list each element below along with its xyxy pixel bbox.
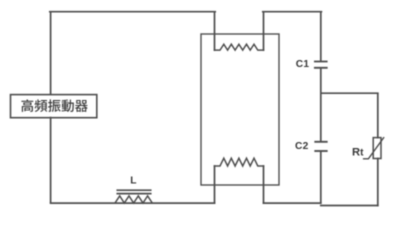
wire: left vertical from top rail down to oscillator box: [50, 12, 52, 94]
resistor: top heater element zigzag (inside transducer): [215, 44, 264, 50]
thermistor Rt diagonal stroke with bent foot: [364, 138, 384, 159]
capacitor C1 bottom plate: [315, 67, 327, 69]
inductor L core bar lower: [117, 193, 150, 195]
oscillator box label char 器: [75, 100, 88, 112]
wire: top rail left segment: [50, 11, 215, 13]
oscillator box label char 振: [48, 99, 61, 112]
wire: lead down from bottom heater resistor left end to bottom rail: [214, 166, 216, 203]
wire: C1 upper lead: [320, 12, 322, 61]
oscillator box label char 高: [21, 99, 33, 112]
svg-text:C2: C2: [295, 141, 309, 152]
wire: left vertical from oscillator box down to bottom rail: [50, 118, 52, 203]
capacitor C1 top plate: [315, 61, 327, 63]
wire: top rail right segment: [263, 11, 322, 13]
wire: lead up from top heater resistor right end to top rail: [263, 12, 265, 50]
capacitor C2 bottom plate: [315, 150, 326, 152]
svg-text:C1: C1: [296, 59, 310, 70]
wire: C2 lower lead down to bottom rail: [320, 152, 322, 203]
capacitor C2 top plate: [315, 141, 326, 143]
inductor L core bar upper: [117, 189, 150, 191]
wire: between C1 and C2 through junction node: [320, 69, 322, 141]
wire: bottom rail between transducer right lead and C2 lead: [264, 202, 321, 204]
oscillator box label char 頻: [35, 99, 48, 112]
transducer enclosure rectangle: [201, 34, 279, 185]
svg-text:Rt: Rt: [352, 147, 364, 159]
wire: bottom rail left segment with inductor L: [51, 202, 215, 204]
wire: bottom rail right segment from C2 lead to Rt lead (slight jog): [321, 205, 378, 207]
resistor: bottom heater element zigzag (inside transducer): [215, 158, 264, 166]
oscillator box (high-frequency vibrator): [11, 95, 97, 118]
thermistor Rt body rectangle: [373, 138, 381, 159]
oscillator box label char 動: [62, 100, 74, 113]
inductor L winding zigzag: [115, 196, 152, 203]
wire: Rt lower lead: [377, 159, 379, 206]
wire: branch from C1-C2 node to thermistor Rt: [321, 92, 377, 94]
wire: Rt upper lead: [377, 94, 379, 138]
svg-text:L: L: [130, 176, 136, 187]
wire: lead up from bottom rail to bottom heater resistor right end: [263, 166, 265, 203]
wire: lead down from top rail to top heater resistor left end: [214, 12, 216, 50]
